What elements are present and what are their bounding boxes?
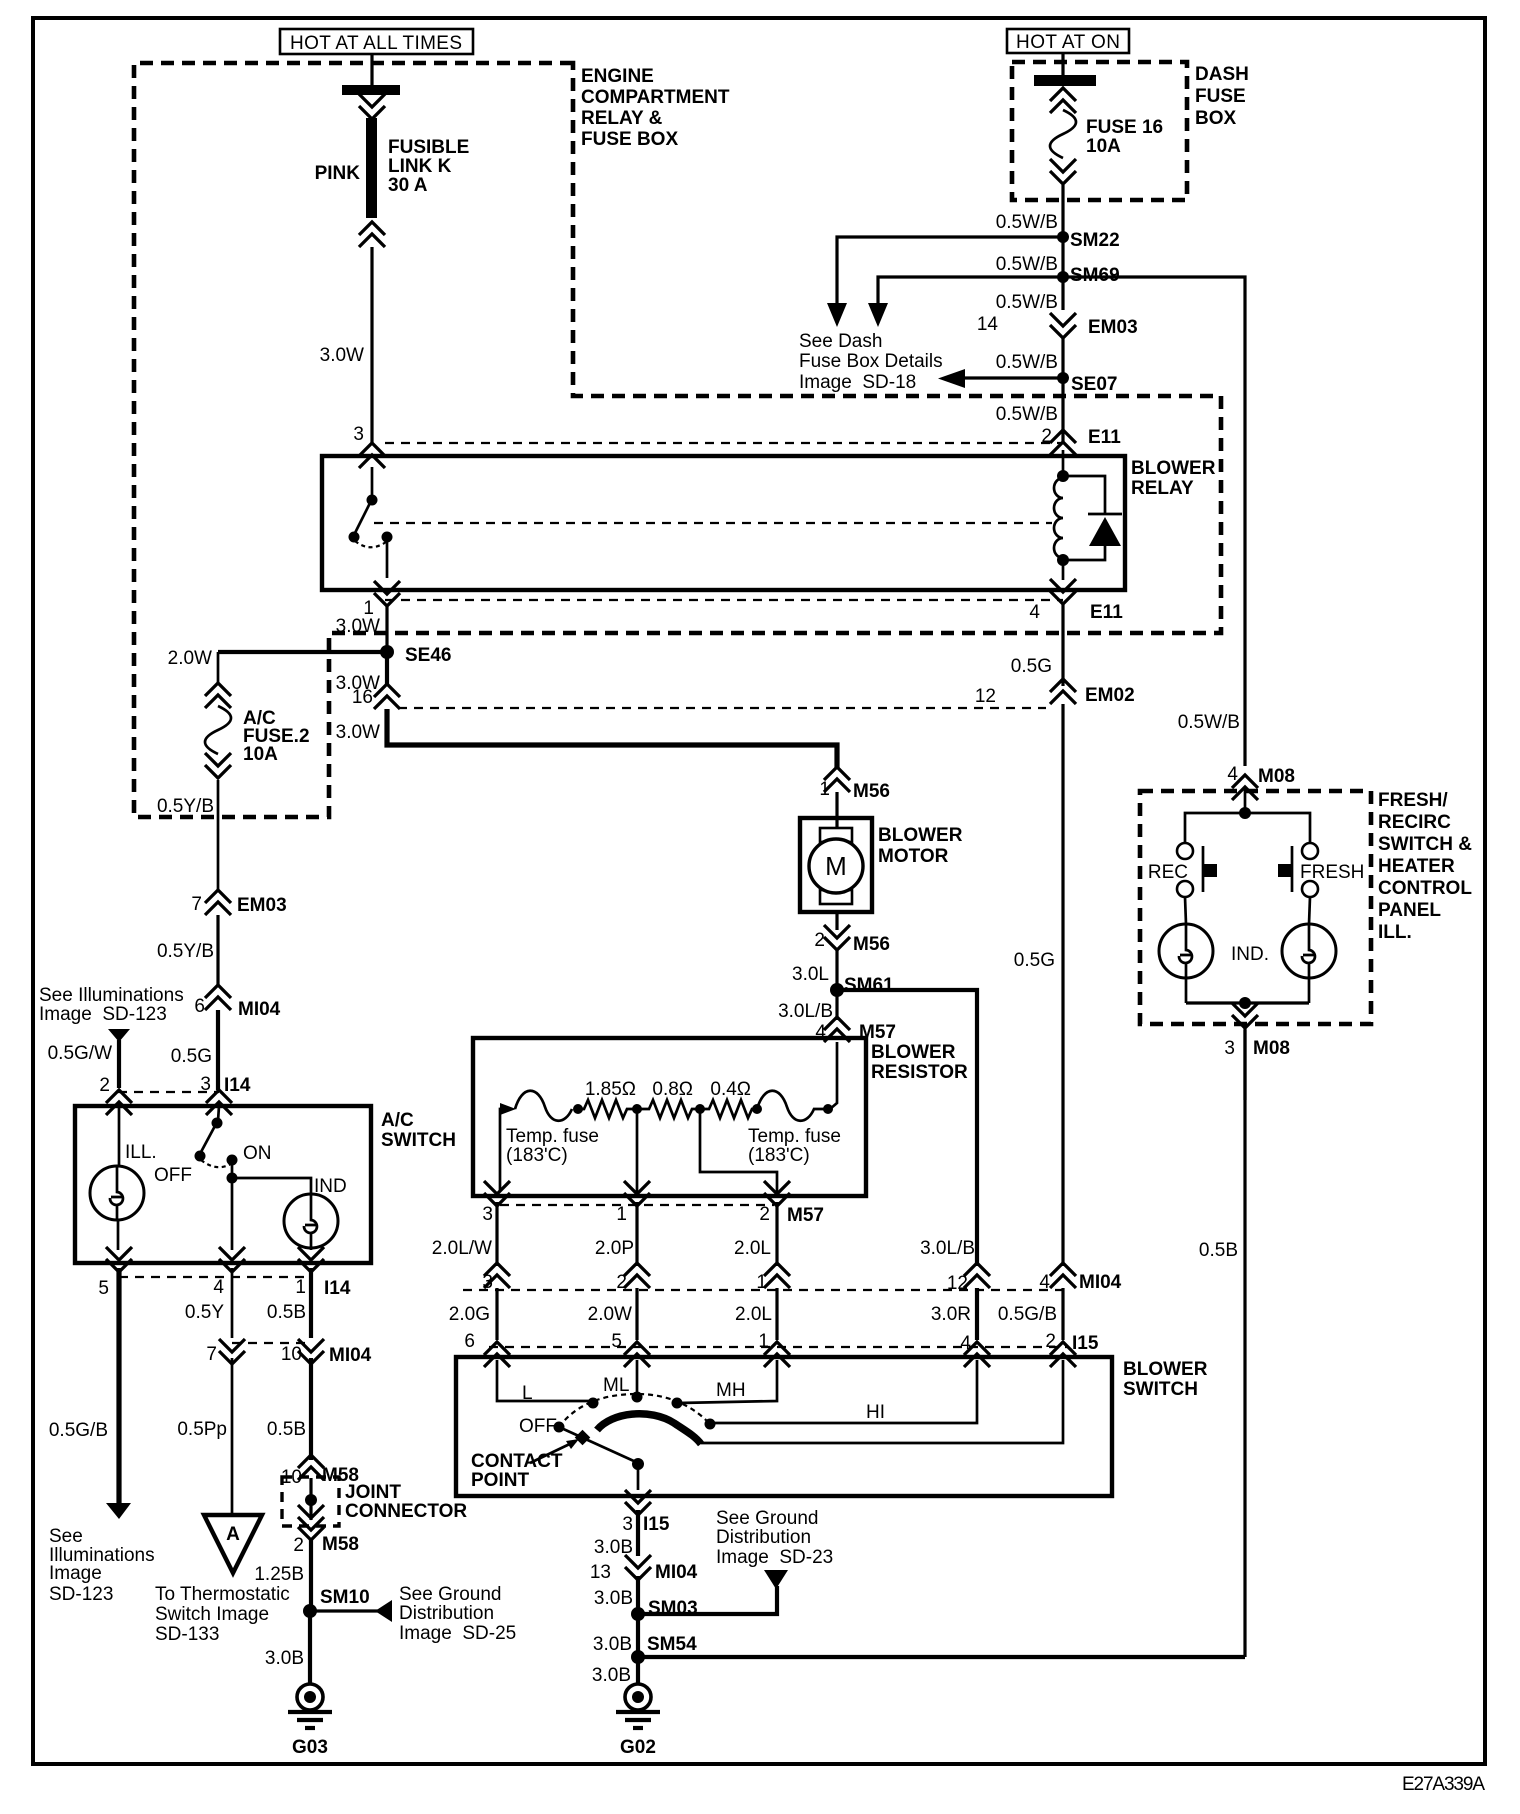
fuse 16 10A symbol [1050,88,1076,184]
wire 3.0L M56 to SM61 [835,950,838,990]
svg-text:10: 10 [281,1344,302,1365]
blower switch L contact wire [497,1360,591,1401]
svg-text:I15: I15 [1072,1333,1099,1354]
svg-text:ILL.: ILL. [1378,922,1412,943]
svg-text:BLOWER: BLOWER [1131,458,1216,479]
svg-text:2: 2 [759,1204,770,1225]
A/C switch ON node [227,1173,238,1184]
blower switch ML contact wire [636,1360,639,1395]
connector MI04 pin 4 [1050,1263,1076,1288]
wire M57 pin4 into resistor [830,1042,837,1109]
node SM54 [631,1650,645,1664]
svg-text:I15: I15 [643,1514,670,1535]
connector EM02 pin 12 [1050,679,1076,704]
svg-text:0.5W/B: 0.5W/B [996,254,1058,275]
fusible link K 30A (thick bar) [366,118,377,218]
svg-text:ILL.: ILL. [125,1142,157,1163]
svg-text:3: 3 [353,424,364,445]
indicator common wire [1186,1001,1309,1004]
connector M57 pin 4 [824,1017,850,1042]
blower switch MH contact wire [679,1360,777,1403]
svg-text:See Ground: See Ground [399,1584,501,1605]
svg-text:10A: 10A [1086,136,1121,157]
svg-text:See Ground: See Ground [716,1508,818,1529]
svg-text:MH: MH [716,1380,746,1401]
connector E11 dashed line pins 3-2 [385,442,1063,444]
connector EM02 dashed line pins 16-12 [398,707,1046,709]
connector MI04 pin 1 [764,1263,790,1288]
wire 0.5B M08-3 down (joins SM54 branch) [1243,1028,1246,1100]
svg-text:SM61: SM61 [844,975,894,996]
connector chevrons below bus bar [359,94,385,119]
connector MI04 pin 12 [964,1263,990,1288]
svg-text:G03: G03 [292,1737,328,1758]
label DASH FUSE BOX [1195,64,1249,129]
node fresh/recirc feed junction [1239,807,1251,819]
label CONTACT POINT with pointer [471,1439,579,1491]
connector M57 pin 2 [764,1181,790,1206]
svg-text:To Thermostatic: To Thermostatic [155,1584,290,1605]
svg-text:Temp. fuse: Temp. fuse [506,1126,599,1147]
connector EM03 pin 7 [205,890,231,915]
svg-text:7: 7 [191,894,202,915]
svg-text:SWITCH: SWITCH [381,1130,456,1151]
note See Illuminations SD-123 (bottom) [49,1526,155,1605]
node SM61 [830,983,844,997]
connector M56 pin 2 [835,912,838,930]
svg-text:Image SD-25: Image SD-25 [399,1623,516,1644]
svg-text:M58: M58 [322,1534,359,1555]
svg-text:L: L [522,1383,533,1404]
connector M57 pin 1 [624,1181,650,1206]
relay switch arm [355,501,371,533]
svg-text:3.0B: 3.0B [265,1648,304,1669]
svg-text:CONTROL: CONTROL [1378,878,1472,899]
svg-text:RECIRC: RECIRC [1378,812,1451,833]
svg-text:1: 1 [758,1331,769,1352]
svg-text:2.0W: 2.0W [168,648,212,669]
connector MI04 dashed line [463,1289,1070,1291]
svg-text:4: 4 [960,1333,971,1354]
wire branch SM69 to fresh/recirc M08 [1063,277,1245,766]
svg-text:I14: I14 [224,1075,251,1096]
temp fuse 2 (183C) [757,1091,828,1121]
blower motor [800,792,872,912]
wire 2.0L/W M57-3 to MI04-3 [495,1202,498,1266]
svg-text:RESISTOR: RESISTOR [871,1062,968,1083]
label BLOWER RESISTOR [871,1042,968,1083]
off-page arrow 0.5G/W illumination feed [108,1029,130,1042]
note See Dash Fuse Box Details Image SD-18 [799,331,943,393]
label BLOWER MOTOR [878,825,963,867]
wire 0.5G MI04 to A/C switch pin 3 [216,1010,220,1090]
svg-text:2.0P: 2.0P [595,1238,634,1259]
svg-text:IND: IND [314,1176,347,1197]
svg-text:3.0L: 3.0L [792,964,829,985]
wire ON node to pin 4 [231,1178,234,1250]
wire 3.0B SM54 to ground G02 [636,1657,640,1684]
svg-text:30 A: 30 A [388,175,428,196]
svg-text:3.0L/B: 3.0L/B [920,1238,975,1259]
wire 0.5B MI04-10 to joint connector [309,1358,313,1460]
svg-text:LINK K: LINK K [388,156,452,177]
wire 2.0W branch SE46 to A/C fuse [218,650,387,654]
svg-text:5: 5 [98,1278,109,1299]
svg-text:A: A [226,1524,240,1545]
svg-text:Fuse Box Details: Fuse Box Details [799,351,943,372]
label HOT AT ALL TIMES [280,29,473,54]
svg-text:0.5W/B: 0.5W/B [996,292,1058,313]
svg-text:1: 1 [819,779,830,800]
label JOINT CONNECTOR [345,1482,467,1522]
svg-text:2: 2 [1045,1331,1056,1352]
svg-text:BLOWER: BLOWER [871,1042,956,1063]
svg-text:3: 3 [1224,1038,1235,1059]
svg-text:M08: M08 [1258,766,1295,787]
connector MI04 pin 7 [219,1339,245,1364]
connector EM02 pin 16 [374,684,400,709]
svg-text:IND.: IND. [1231,944,1269,965]
svg-text:Switch Image: Switch Image [155,1604,269,1625]
svg-text:5: 5 [611,1331,622,1352]
svg-text:7: 7 [206,1344,217,1365]
svg-text:POINT: POINT [471,1470,529,1491]
label ENGINE COMPARTMENT RELAY & FUSE BOX [581,66,730,150]
node SM10 [303,1604,317,1618]
blower switch common wire (to rotor arc) [701,1360,1063,1443]
svg-text:0.5W/B: 0.5W/B [996,212,1058,233]
svg-text:SM10: SM10 [320,1587,370,1608]
svg-text:DASH: DASH [1195,64,1249,85]
wire branch SM61 to blower switch HI (3.0L/B) [837,990,977,1266]
wire 3.0R MI04-12 to I15-4 [975,1288,979,1340]
wire 0.5Pp MI04-7 to thermostatic A [231,1358,234,1515]
connector I14 dashed line pins 5-4-1 [119,1276,311,1278]
label FUSIBLE LINK K 30 A [388,137,469,196]
svg-text:SM22: SM22 [1070,230,1120,251]
connector I15 pin 5 [624,1342,650,1367]
svg-text:3.0B: 3.0B [592,1665,631,1686]
fuse 16 bus bar [1034,75,1096,86]
node SE07 [1057,372,1069,384]
REC indicator bulb [1159,897,1213,1003]
wire 2.0W MI04-2 to I15-5 [635,1288,638,1340]
blower switch position dashed arc [559,1394,710,1427]
relay switch throw dashed arc [355,541,386,547]
note See Illuminations Image SD-123 (top) [39,985,184,1025]
connector I14 pin 5 [106,1247,132,1272]
svg-text:2.0G: 2.0G [449,1304,490,1325]
svg-text:2.0L/W: 2.0L/W [432,1238,492,1259]
svg-text:MI04: MI04 [1079,1272,1122,1293]
connector I15 dashed line [489,1346,1068,1348]
svg-text:2: 2 [99,1075,110,1096]
svg-text:0.5Y/B: 0.5Y/B [157,796,214,817]
svg-text:Image SD-23: Image SD-23 [716,1547,833,1568]
joint connector dashed box [282,1477,339,1526]
svg-text:Image: Image [49,1563,102,1584]
wire relay switch to pin 1 [386,541,389,578]
off-page triangle A (to thermostatic switch) [204,1515,262,1573]
svg-text:3.0R: 3.0R [931,1304,971,1325]
svg-text:I14: I14 [324,1278,351,1299]
svg-text:3.0W: 3.0W [320,345,364,366]
svg-text:PINK: PINK [315,163,361,184]
wire 3.0W SE46 to connector 16 [385,652,389,684]
wire ON node to IND bulb [232,1178,311,1194]
svg-text:MI04: MI04 [238,999,281,1020]
wire resistor tap to M57 pin 2 [700,1109,777,1192]
connector MI04 pin 3 [484,1263,510,1288]
connector chevron relay pin 1 [374,581,400,606]
wire 2.0L M57-2 to MI04-1 [775,1202,778,1266]
A/C switch toggle [195,1106,238,1167]
connector I14 pin 2 [106,1090,132,1115]
svg-text:RELAY &: RELAY & [581,108,663,129]
wire 0.5G/B MI04-4 to I15-2 [1061,1288,1064,1340]
svg-text:Distribution: Distribution [716,1527,811,1548]
svg-text:0.5G/B: 0.5G/B [998,1304,1057,1325]
connector I15 pin 3 [625,1490,651,1515]
connector M56 pin 1 [824,767,850,792]
svg-text:3: 3 [622,1514,633,1535]
A/C fuse 2 10A [205,652,231,890]
svg-text:SM54: SM54 [647,1634,697,1655]
blower switch box [456,1357,1112,1496]
connector M08 pin 3 [1232,1003,1258,1028]
svg-text:Image SD-123: Image SD-123 [39,1004,167,1025]
connector E11 dashed line pins 1-4 [385,599,1063,601]
connector MI04 pin 13 [625,1555,651,1580]
svg-text:SD-123: SD-123 [49,1584,113,1605]
svg-text:HOT AT ON: HOT AT ON [1016,32,1120,53]
svg-text:0.5B: 0.5B [267,1419,306,1440]
label FUSE 16 10A [1086,117,1163,157]
svg-text:1.85Ω: 1.85Ω [585,1079,636,1100]
svg-text:2.0W: 2.0W [588,1304,632,1325]
svg-text:SWITCH: SWITCH [1123,1379,1198,1400]
wire 3.0W SE46/16 to blower motor [387,709,837,768]
wire rotor to I15 pin 3 [637,1464,640,1490]
wire branch SM69 to dash fuse box details arrow [878,277,1063,305]
node SM69 [1057,271,1069,283]
connector chevrons below fusible link [359,222,385,247]
svg-text:0.5G/B: 0.5G/B [49,1420,108,1441]
blower switch rotor arm [559,1427,636,1462]
wire resistor tap to M57 pin 1 [636,1109,639,1192]
svg-text:BLOWER: BLOWER [1123,1359,1208,1380]
wire 3.0W from fusible link to relay pin 3 [370,247,373,444]
wire 3.0B SM03 to SM54 [636,1614,640,1657]
svg-text:0.4Ω: 0.4Ω [710,1079,751,1100]
wire 3.0B MI04-13 to SM03 [636,1576,640,1614]
connector chevron relay pin 4 [1062,558,1065,580]
wire 0.5Y pin 4 to MI04-7 [231,1268,234,1338]
svg-text:A/C: A/C [381,1110,414,1131]
svg-text:REC: REC [1148,862,1188,883]
svg-text:2: 2 [293,1535,304,1556]
relay coil [1054,450,1069,566]
svg-text:E27A339A: E27A339A [1402,1774,1485,1795]
wire branch SM03 to ground distribution arrow [638,1586,777,1614]
temp fuse 1 (183C) [515,1091,572,1121]
svg-text:M56: M56 [853,934,890,955]
wire from HOT AT ALL TIMES to bus bar [370,54,373,86]
svg-text:See Dash: See Dash [799,331,882,352]
wire branch SM54 to 0.5B (fresh/recirc return) [638,1655,1245,1659]
label A/C FUSE.2 10A [243,708,310,765]
svg-text:PANEL: PANEL [1378,900,1441,921]
svg-text:0.5G/W: 0.5G/W [48,1043,112,1064]
svg-text:SE07: SE07 [1071,374,1117,395]
REC button [1177,843,1217,897]
connector I14 pin 4 [219,1247,245,1272]
svg-text:MI04: MI04 [329,1345,372,1366]
svg-text:HEATER: HEATER [1378,856,1455,877]
fuse 16 feed wire [1061,54,1064,76]
wire branch SE07 arrow to see dash fuse box [963,376,1063,379]
bus bar (hot feed) [342,85,400,95]
wire 1.25B M58-2 to SM10 [309,1540,313,1611]
svg-text:4: 4 [1029,602,1040,623]
svg-text:M: M [825,851,847,881]
wire 0.5W/B dash fuse box to SM22 [1061,185,1064,310]
connector I14 dashed line pins 2-3 [118,1091,219,1093]
connector I15 pin 2 [1050,1342,1076,1367]
svg-text:(183ʹC): (183ʹC) [748,1145,810,1166]
wire 3.0B SM10 to ground G03 [308,1611,312,1684]
wire 2.0L MI04-1 to I15-1 [775,1288,778,1340]
svg-text:FRESH/: FRESH/ [1378,790,1448,811]
label Temp. fuse (183C) left [506,1126,599,1166]
svg-text:2.0L: 2.0L [734,1238,771,1259]
svg-text:E11: E11 [1090,602,1123,623]
FRESH button [1278,843,1318,897]
relay switch pivot [367,495,378,506]
svg-text:0.5Y: 0.5Y [185,1302,224,1323]
svg-text:0.5W/B: 0.5W/B [996,352,1058,373]
wire M08-4 into box [1244,788,1247,813]
svg-text:MOTOR: MOTOR [878,846,949,867]
svg-text:0.5Pp: 0.5Pp [177,1419,227,1440]
svg-text:0.5Y/B: 0.5Y/B [157,941,214,962]
note See Ground Distribution Image SD-23 [716,1508,833,1568]
ground G02 [616,1684,660,1758]
svg-text:6: 6 [464,1331,475,1352]
wire 0.5Y/B EM03 to MI04 [216,915,219,986]
svg-text:16: 16 [352,687,373,708]
svg-text:CONNECTOR: CONNECTOR [345,1501,467,1522]
svg-text:0.5G: 0.5G [1014,950,1055,971]
svg-text:ENGINE: ENGINE [581,66,654,87]
joint connector node [309,1478,312,1520]
ground G03 [288,1684,332,1758]
svg-text:Distribution: Distribution [399,1603,494,1624]
svg-text:1: 1 [616,1204,627,1225]
svg-text:6: 6 [194,996,205,1017]
svg-text:M08: M08 [1253,1038,1290,1059]
connector M57 pin 3 [484,1181,510,1206]
fresh/recirc switch dashed box [1140,791,1371,1024]
svg-text:0.5G: 0.5G [1011,656,1052,677]
connector M57 dashed line [500,1204,774,1206]
note See Ground Distribution Image SD-25 [399,1584,516,1644]
svg-text:Temp. fuse: Temp. fuse [748,1126,841,1147]
connector E11 pin 2 [1050,430,1076,455]
svg-text:Image SD-18: Image SD-18 [799,372,916,393]
resistor 0.8 ohm [637,1100,700,1118]
blower switch rotor pivot [632,1458,644,1470]
node SE46 [380,645,394,659]
svg-text:SE46: SE46 [405,645,451,666]
svg-text:EM03: EM03 [237,895,287,916]
wire 3.0B I15-3 to MI04-13 [636,1510,640,1556]
svg-text:0.8Ω: 0.8Ω [652,1079,693,1100]
contact point marker [575,1430,591,1446]
svg-text:3: 3 [482,1204,493,1225]
resistor chain entry arrow [500,1103,516,1115]
svg-text:HOT AT ALL TIMES: HOT AT ALL TIMES [290,33,462,54]
label Temp. fuse (183C) right [748,1126,841,1166]
svg-text:FUSE BOX: FUSE BOX [581,129,678,150]
connector M08 pin 4 [1232,775,1258,800]
svg-text:OFF: OFF [154,1165,192,1186]
svg-text:G02: G02 [620,1737,656,1758]
wire 0.5G/B pin 5 to illuminations arrow [116,1268,121,1505]
wire branch SM10 to ground distribution arrow [310,1609,379,1612]
node SM22 [1057,231,1069,243]
svg-text:0.5W/B: 0.5W/B [996,404,1058,425]
resistor 1.85 ohm [578,1100,637,1118]
svg-text:E11: E11 [1088,427,1121,448]
resistor 0.4 ohm [700,1100,757,1118]
svg-text:0.5B: 0.5B [1199,1240,1238,1261]
svg-text:14: 14 [977,314,999,335]
connector MI04 pin 6 [205,985,231,1010]
relay linkage dashed line [374,522,1052,524]
connector I14 pin 3 [206,1090,232,1115]
svg-text:EM03: EM03 [1088,317,1138,338]
svg-text:(183ʹC): (183ʹC) [506,1145,568,1166]
svg-text:M56: M56 [853,781,890,802]
blower switch HI contact wire [712,1360,977,1423]
connector I15 pin 4 [964,1342,990,1367]
svg-text:BOX: BOX [1195,108,1237,129]
svg-text:SD-133: SD-133 [155,1624,219,1645]
blower relay box [322,456,1125,590]
svg-text:0.5G: 0.5G [171,1046,212,1067]
svg-text:4: 4 [1227,764,1238,785]
relay diode (parallel with coil) [1063,476,1122,560]
svg-text:JOINT: JOINT [345,1482,401,1503]
svg-text:2.0L: 2.0L [735,1304,772,1325]
svg-text:3.0L/B: 3.0L/B [778,1001,833,1022]
node SM03 [631,1607,645,1621]
svg-text:COMPARTMENT: COMPARTMENT [581,87,730,108]
label BLOWER RELAY [1131,458,1216,499]
svg-text:3.0W: 3.0W [336,722,380,743]
blower switch rotor contact arc (thick) [597,1414,701,1444]
svg-text:RELAY: RELAY [1131,478,1194,499]
svg-text:4: 4 [213,1277,224,1298]
svg-text:HI: HI [866,1402,885,1423]
svg-text:OFF: OFF [519,1416,557,1437]
FRESH indicator bulb [1282,897,1336,1003]
A/C switch ILL bulb [90,1106,144,1250]
svg-text:SWITCH &: SWITCH & [1378,834,1472,855]
svg-text:FUSE 16: FUSE 16 [1086,117,1163,138]
wire 0.5B pin 1 to MI04-10 [309,1268,313,1338]
